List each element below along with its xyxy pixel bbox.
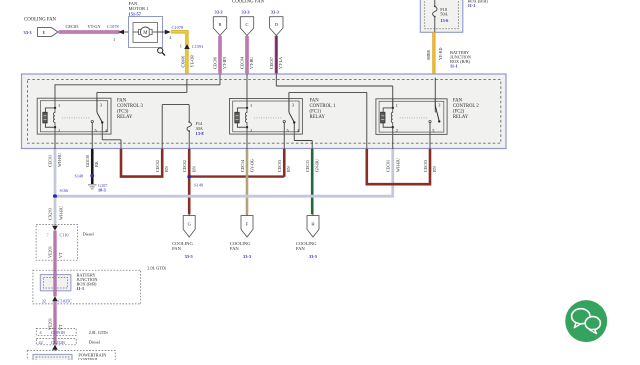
- wire VE203 VT (C1035C down to PCM): [54, 301, 57, 344]
- svg-text:3: 3: [292, 103, 294, 108]
- svg-text:CX203: CX203: [48, 208, 53, 220]
- splice S166: [53, 194, 57, 198]
- svg-text:VT-BN: VT-BN: [222, 57, 227, 69]
- svg-text:FAN: FAN: [117, 99, 127, 104]
- svg-text:B: B: [219, 22, 222, 27]
- svg-text:VT: VT: [58, 324, 63, 330]
- svg-text:C1035C: C1035C: [58, 299, 72, 304]
- svg-text:50A: 50A: [440, 11, 448, 16]
- svg-text:33-3: 33-3: [24, 30, 33, 35]
- svg-text:FAN: FAN: [172, 246, 182, 251]
- connector E (to cooling fan, pentagon): [38, 28, 59, 37]
- svg-text:3: 3: [100, 103, 102, 108]
- svg-text:VT-BU: VT-BU: [249, 57, 254, 69]
- svg-text:(FC1): (FC1): [310, 110, 322, 115]
- wire: FC1 relay pin 4 elbow down: [293, 123, 295, 141]
- connector F (to cooling fan, bottom pentagon): [246, 214, 248, 216]
- svg-text:1: 1: [180, 43, 182, 48]
- svg-text:S166: S166: [60, 188, 69, 193]
- connector arrow into PCM: [52, 345, 58, 350]
- svg-text:C: C: [246, 22, 249, 27]
- connector C (cooling fan, pentagon): [240, 17, 253, 36]
- svg-text:CEC02: CEC02: [182, 160, 187, 172]
- wire CEC05 VT-GY (violet, E to fan motor 1): [59, 30, 120, 33]
- svg-text:5: 5: [432, 128, 434, 133]
- wire CEC06 VT-BN (violet, connector B down to BJB): [218, 36, 221, 74]
- svg-text:E: E: [43, 30, 46, 35]
- svg-text:33-3: 33-3: [243, 254, 252, 259]
- svg-text:VT-LA: VT-LA: [278, 57, 283, 69]
- in-line connector C1591 pin 1 (arrow up): [184, 44, 190, 49]
- wire: connector D to FC2 relay pin 1: [275, 74, 277, 86]
- battery junction box (lower left, dashed): [33, 270, 141, 304]
- svg-text:RELAY: RELAY: [453, 115, 469, 120]
- svg-text:GD130: GD130: [85, 155, 90, 167]
- svg-text:GN-BU: GN-BU: [315, 159, 320, 172]
- svg-text:BN: BN: [286, 166, 291, 172]
- svg-text:CEC06: CEC06: [213, 57, 218, 69]
- connector C1035C pin 32 (arrow up): [52, 296, 58, 301]
- svg-text:11-1: 11-1: [77, 286, 85, 291]
- svg-text:CEC01: CEC01: [386, 160, 391, 172]
- wire: SBB8 to FC2 relay pin 3: [434, 78, 436, 113]
- motor symbol M1: [133, 31, 139, 33]
- svg-text:30A: 30A: [196, 126, 204, 131]
- connector D (cooling fan, pentagon): [270, 17, 283, 36]
- wire: FC1 relay pin 3 to FC2 relay pin 5 (upper run): [288, 92, 290, 112]
- svg-text:Diesel: Diesel: [83, 231, 95, 236]
- wire CEC01 WH-BU (FC3 pin 2 down to S166): [54, 149, 57, 196]
- relay FC1 (fan control 1): [230, 98, 336, 134]
- svg-text:FAN: FAN: [296, 246, 306, 251]
- svg-text:11-1: 11-1: [468, 3, 476, 8]
- svg-text:2: 2: [169, 35, 171, 40]
- svg-text:CONTROL 2: CONTROL 2: [453, 104, 479, 109]
- svg-text:YE-RD: YE-RD: [438, 47, 443, 60]
- wire WH-BU bus (S166 to FC2 pin 2): [55, 195, 394, 198]
- svg-text:33-3: 33-3: [271, 10, 280, 15]
- svg-text:BN: BN: [191, 166, 196, 172]
- svg-text:WH-BU: WH-BU: [59, 206, 64, 220]
- svg-text:10-3: 10-3: [98, 187, 106, 192]
- svg-text:D: D: [275, 22, 278, 27]
- svg-text:13-8: 13-8: [196, 131, 205, 136]
- connector C110 (arrow down): [52, 226, 58, 231]
- svg-text:CEC15: CEC15: [305, 160, 310, 172]
- svg-text:FAN: FAN: [230, 246, 240, 251]
- svg-text:2.0L GTDi: 2.0L GTDi: [147, 266, 167, 271]
- wire CEC14 GY-OG (FC1 pin 2 to connector F): [246, 149, 249, 214]
- svg-text:(FC3): (FC3): [117, 110, 129, 115]
- svg-text:C1078: C1078: [172, 25, 185, 30]
- svg-text:CEC01: CEC01: [48, 155, 53, 167]
- svg-text:RELAY: RELAY: [117, 115, 133, 120]
- svg-text:WH-BU: WH-BU: [395, 158, 400, 172]
- connector arrow C1078 pin 2 (right of motor): [158, 31, 166, 33]
- battery junction box (fuse F18 box, top right): [420, 0, 463, 32]
- svg-text:CONTROL 3: CONTROL 3: [117, 104, 143, 109]
- svg-text:CEC07: CEC07: [269, 57, 274, 69]
- svg-text:1: 1: [58, 103, 60, 108]
- wire SBB8 YE-RD (yellow from F18 down to BJB): [432, 32, 435, 74]
- svg-text:SBB8: SBB8: [426, 50, 431, 60]
- wire CEC02 BN (fuse F14 through S148 to connector G): [188, 149, 191, 214]
- svg-text:BK: BK: [94, 161, 99, 167]
- svg-text:1: 1: [250, 103, 252, 108]
- ground G107 10-3: [88, 184, 97, 186]
- connector C1232B pin 42 (dashed row): [36, 339, 76, 345]
- wire CEC03 BN (FC1 pin 3 run to FC2 pin 5, lower U): [367, 149, 430, 184]
- svg-text:33-3: 33-3: [215, 10, 224, 15]
- wire CX006 YE-OR (yellow elbow from motor pin 2): [171, 32, 187, 80]
- svg-text:C110: C110: [60, 232, 69, 237]
- svg-text:Diesel: Diesel: [89, 339, 101, 344]
- svg-text:5: 5: [94, 128, 96, 133]
- wire: connector C to FC1 relay pin 1: [246, 74, 248, 108]
- wire CEC02 BN (FC3 pin 4 U-loop to fuse F14): [121, 149, 162, 177]
- svg-text:2: 2: [250, 128, 252, 133]
- wire CEC07 VT-LA (violet, connector D down to BJB): [275, 36, 278, 74]
- svg-text:CEC03: CEC03: [277, 160, 282, 172]
- svg-text:FAN: FAN: [310, 99, 320, 104]
- connector B (cooling fan, pentagon): [213, 17, 226, 36]
- wire CEC03 BN (S148 to FC1 pin 5): [189, 175, 284, 177]
- svg-text:FAN: FAN: [453, 99, 463, 104]
- relay FC3 (fan control 3): [37, 98, 143, 134]
- svg-text:33-5: 33-5: [309, 254, 318, 259]
- wire: CX006 to FC3 relay pin 3: [186, 80, 188, 92]
- svg-text:1: 1: [396, 103, 398, 108]
- connector C1891B pin 4 (dashed row): [36, 328, 76, 335]
- svg-text:VE203: VE203: [48, 246, 53, 258]
- svg-text:7: 7: [47, 232, 49, 237]
- wire VE203 VT (C110 down through BJB): [54, 231, 57, 297]
- svg-text:CEC03: CEC03: [423, 160, 428, 172]
- svg-text:CEC05: CEC05: [66, 24, 80, 29]
- svg-text:VT-GY: VT-GY: [88, 24, 102, 29]
- relay FC2 (fan control 2): [376, 98, 479, 134]
- svg-text:CEC02: CEC02: [155, 160, 160, 172]
- connector H (to cooling fan, bottom pentagon): [312, 214, 314, 216]
- svg-text:1: 1: [113, 37, 115, 42]
- svg-text:C1078: C1078: [107, 24, 120, 29]
- fuse F18 50A: [434, 0, 436, 6]
- chat button (green circle with speech bubbles): [565, 300, 607, 342]
- svg-text:YE-OR: YE-OR: [189, 55, 194, 68]
- wire: connector B to FC3 relay pin 1: [219, 74, 221, 85]
- splice S148 (on GD130): [90, 174, 94, 178]
- svg-text:C1591: C1591: [192, 44, 204, 49]
- svg-text:BN: BN: [164, 166, 169, 172]
- svg-text:COOLING FAN: COOLING FAN: [232, 0, 265, 5]
- wire: relay pin 2/5 exits down to box edge: [54, 127, 56, 149]
- splice S148 (on CEC02 at fuse leg): [187, 175, 191, 179]
- svg-text:RELAY: RELAY: [310, 115, 326, 120]
- powertrain control module (PCM) box, clipped: [27, 351, 115, 365]
- svg-text:32: 32: [42, 299, 46, 304]
- connector arrow C1078 pin 1 (left of motor): [118, 30, 124, 35]
- svg-text:33-3: 33-3: [242, 10, 251, 15]
- svg-text:2: 2: [396, 128, 398, 133]
- magnifier icon (zoom control): [158, 48, 163, 53]
- svg-text:CEC14: CEC14: [240, 160, 245, 172]
- wire: fuse F14 branch: [161, 105, 163, 149]
- svg-text:C1891B: C1891B: [51, 330, 65, 335]
- svg-text:33-5: 33-5: [185, 254, 194, 259]
- wire: FC3 relay pin 4 elbow down: [101, 123, 103, 140]
- svg-text:11-1: 11-1: [450, 63, 458, 68]
- fuse F14 30A: [188, 121, 190, 123]
- wire GD130 BK (FC3 pin 5 to ground G107): [91, 149, 94, 184]
- svg-text:13-6: 13-6: [440, 18, 449, 23]
- svg-text:VT: VT: [58, 252, 63, 258]
- svg-text:C1232B: C1232B: [51, 340, 65, 345]
- svg-text:2: 2: [58, 128, 60, 133]
- svg-text:GY-OG: GY-OG: [249, 159, 254, 172]
- svg-text:WH-BU: WH-BU: [57, 153, 62, 167]
- wire CEC15 GN-BU (FC1 pin 4 to connector H): [311, 149, 314, 214]
- svg-text:M: M: [143, 31, 148, 36]
- svg-text:COOLING FAN: COOLING FAN: [24, 18, 57, 23]
- svg-text:CEC04: CEC04: [240, 57, 245, 69]
- svg-text:151-57: 151-57: [129, 11, 142, 16]
- svg-text:CX006: CX006: [181, 56, 186, 68]
- svg-text:S148: S148: [75, 173, 84, 178]
- svg-text:S148: S148: [194, 183, 203, 188]
- svg-text:3: 3: [438, 103, 440, 108]
- wire CX203 WH-BU (S166 down to C110): [54, 198, 57, 226]
- svg-text:42: 42: [39, 340, 43, 345]
- fan motor M1 box: [129, 17, 163, 48]
- svg-text:(FC2): (FC2): [453, 110, 465, 115]
- svg-text:MOTOR 1: MOTOR 1: [129, 6, 150, 11]
- svg-text:CONTROL 1: CONTROL 1: [310, 104, 336, 109]
- svg-text:5: 5: [286, 128, 288, 133]
- battery junction box B/B (large dashed box with relays): [22, 74, 507, 149]
- svg-text:BN: BN: [432, 166, 437, 172]
- wire CEC01 WH-BU (FC2 pin 2 down to bus): [391, 149, 394, 196]
- svg-text:2.0L GTDi: 2.0L GTDi: [89, 330, 109, 335]
- wire CEC04 VT-BU (violet, connector C down to BJB): [245, 36, 248, 74]
- connector G (to cooling fan, bottom pentagon): [188, 214, 190, 216]
